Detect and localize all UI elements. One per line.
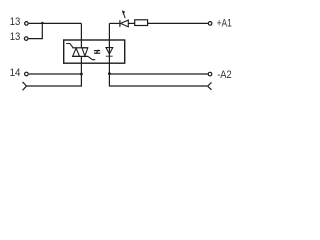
wire +A1 branch down through box: [108, 23, 110, 74]
terminal circle +A1: [208, 22, 212, 26]
LED emission arrow: [123, 13, 125, 18]
junction dot node 13: [41, 22, 43, 24]
triac bottom rail MT1: [72, 55, 88, 57]
triac left triangle (apex up): [73, 48, 80, 56]
terminal circle 13 (upper): [25, 22, 29, 26]
LED indicator cathode bar: [119, 20, 121, 27]
terminal circle 13 (lower): [24, 37, 28, 41]
triac MT1 lead down: [80, 56, 82, 74]
svg-text:13: 13: [10, 31, 21, 43]
triac top rail MT2: [72, 47, 88, 49]
wire 14 to triac MT1 node: [29, 73, 82, 75]
terminal circle -A2: [208, 72, 212, 76]
triac gate lead (top-left): [66, 44, 73, 48]
wire LED to resistor: [128, 22, 134, 24]
plug contact chevron (left): [23, 82, 27, 91]
svg-text:14: 14: [10, 67, 21, 79]
plug-in bridge wire (right, node A2): [109, 74, 207, 86]
wire A2 node to -A2: [109, 73, 207, 75]
optocoupler box U1: [64, 40, 125, 63]
triac gate lead (bottom-right): [88, 56, 95, 59]
junction dot node 14/MT1: [80, 73, 83, 76]
resistor R1: [135, 20, 148, 26]
wire top corner to LED: [109, 22, 119, 24]
wire down into box to triac MT2: [80, 23, 82, 47]
svg-text:-A2: -A2: [217, 69, 231, 81]
opto light arrows: [94, 50, 100, 52]
terminal circle 14: [25, 72, 29, 76]
svg-text:13: 13: [10, 16, 21, 28]
plug contact chevron (right): [208, 82, 212, 89]
plug-in bridge wire (left, node 14): [27, 74, 82, 86]
wire resistor to +A1: [148, 22, 209, 24]
wire 13 lower branch: [29, 23, 43, 38]
junction dot node A2: [108, 72, 111, 75]
LED indicator triangle: [121, 20, 129, 27]
svg-text:+A1: +A1: [217, 18, 232, 30]
triac right triangle (apex down): [82, 48, 88, 56]
opto LED D1 (inside box): [106, 48, 113, 54]
wire 13 upper to triac top: [29, 22, 82, 24]
opto LED cathode bar: [106, 55, 113, 57]
